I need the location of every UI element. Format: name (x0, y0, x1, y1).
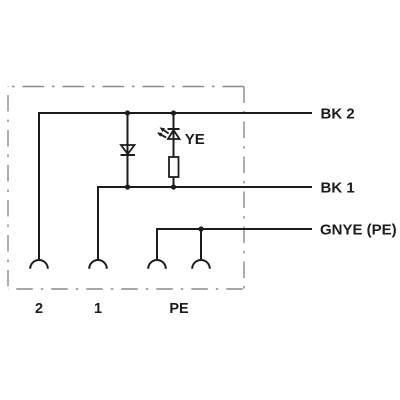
svg-text:BK 2: BK 2 (321, 106, 355, 123)
svg-text:PE: PE (169, 301, 189, 317)
svg-text:YE: YE (185, 131, 205, 148)
svg-text:GNYE (PE): GNYE (PE) (320, 222, 397, 239)
svg-text:1: 1 (94, 301, 102, 317)
svg-text:BK 1: BK 1 (321, 180, 355, 197)
svg-text:2: 2 (35, 301, 43, 317)
